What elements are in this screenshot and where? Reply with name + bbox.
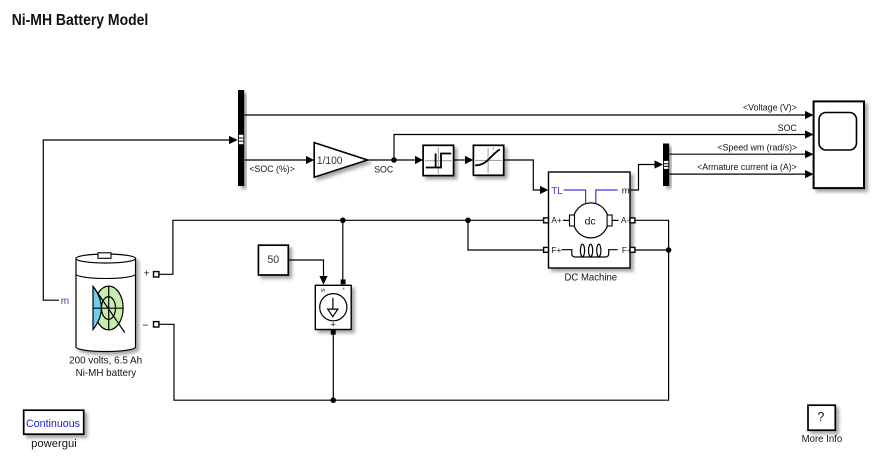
node F- junction <box>666 247 672 253</box>
wire lookup to TL <box>504 160 540 190</box>
port square F- <box>630 247 635 252</box>
svg-text:dc: dc <box>585 215 596 227</box>
bus selector 1 <box>238 90 244 186</box>
controlled current source block <box>315 285 351 329</box>
battery icon <box>93 286 125 333</box>
svg-text:A-: A- <box>621 215 630 225</box>
wire bus2 out2 to scope (Armature current) <box>669 173 805 175</box>
current source minus tick <box>343 288 345 290</box>
svg-text:Ni-MH battery: Ni-MH battery <box>76 368 137 379</box>
svg-text:powergui: powergui <box>31 438 77 450</box>
svg-text:m: m <box>622 185 630 196</box>
svg-text:<Speed wm (rad/s)>: <Speed wm (rad/s)> <box>717 142 797 152</box>
wire m out to bus selector 2 <box>630 165 655 191</box>
svg-text:<SOC (%)>: <SOC (%)> <box>249 164 294 174</box>
DC Machine block <box>549 172 631 268</box>
wire junction to F+ <box>468 220 544 250</box>
svg-text:m: m <box>61 296 69 307</box>
svg-text:F-: F- <box>622 245 630 255</box>
wire m to bus selector 1 <box>43 140 229 300</box>
battery block <box>76 253 136 352</box>
svg-text:+: + <box>330 319 336 330</box>
wire current source down to bottom rail <box>332 335 334 401</box>
node junction to current source <box>340 218 346 224</box>
wire battery + to A+ <box>159 220 544 274</box>
svg-text:50: 50 <box>267 254 279 266</box>
current source top port <box>341 279 346 284</box>
constant 50 <box>258 245 288 275</box>
DC machine blue wires <box>564 190 586 203</box>
wire bus1 out2 to gain <box>244 159 306 161</box>
powergui block <box>24 410 84 434</box>
svg-text:s: s <box>318 288 327 292</box>
inductor coil <box>562 244 618 257</box>
port square F+ <box>544 247 549 252</box>
svg-text:200 volts, 6.5 Ah: 200 volts, 6.5 Ah <box>69 355 142 366</box>
relay block <box>423 145 454 175</box>
svg-text:More Info: More Info <box>802 434 843 445</box>
svg-text:DC Machine: DC Machine <box>565 272 618 283</box>
wire bus1 out1 to scope (Voltage) <box>244 114 805 116</box>
DC machine armature circle <box>573 203 608 238</box>
wire battery - to bottom rail <box>159 220 669 400</box>
svg-text:F+: F+ <box>551 245 561 255</box>
svg-text:SOC: SOC <box>374 165 394 175</box>
svg-text:?: ? <box>817 410 824 424</box>
scope screen <box>819 113 857 151</box>
wire 50 to current source s input <box>288 260 323 277</box>
brushes <box>570 215 575 226</box>
svg-text:−: − <box>142 319 148 331</box>
port square A- <box>630 218 635 223</box>
current source bottom port <box>331 330 336 335</box>
wire gain to relay with junction <box>368 159 416 161</box>
lookup table block <box>473 145 503 175</box>
svg-text:SOC: SOC <box>778 123 798 133</box>
svg-text:TL: TL <box>551 186 563 197</box>
port square A+ <box>544 218 549 223</box>
svg-text:A+: A+ <box>551 215 562 225</box>
wire bus2 out1 to scope (Speed) <box>669 153 805 155</box>
node bottom junction <box>331 397 337 403</box>
gain 1/100 <box>314 143 367 178</box>
scope block <box>814 101 864 188</box>
node junction to F+ <box>465 218 471 224</box>
wire SOC branch to scope <box>394 135 806 161</box>
current source circle with arrow <box>320 294 347 321</box>
svg-text:1/100: 1/100 <box>317 155 343 167</box>
wire F- to right rail <box>635 249 669 251</box>
svg-text:Ni-MH Battery Model: Ni-MH Battery Model <box>12 12 149 29</box>
armature leads <box>563 219 570 221</box>
svg-text:<Armature current ia (A)>: <Armature current ia (A)> <box>697 162 797 172</box>
wire relay to lookup <box>454 159 466 161</box>
svg-text:+: + <box>144 268 150 280</box>
More Info block <box>808 405 835 430</box>
svg-text:Continuous: Continuous <box>26 418 80 430</box>
wire top junction down to current source <box>342 220 344 279</box>
svg-text:<Voltage (V)>: <Voltage (V)> <box>743 102 797 112</box>
bus selector 2 <box>663 144 669 187</box>
node SOC junction <box>391 157 397 163</box>
